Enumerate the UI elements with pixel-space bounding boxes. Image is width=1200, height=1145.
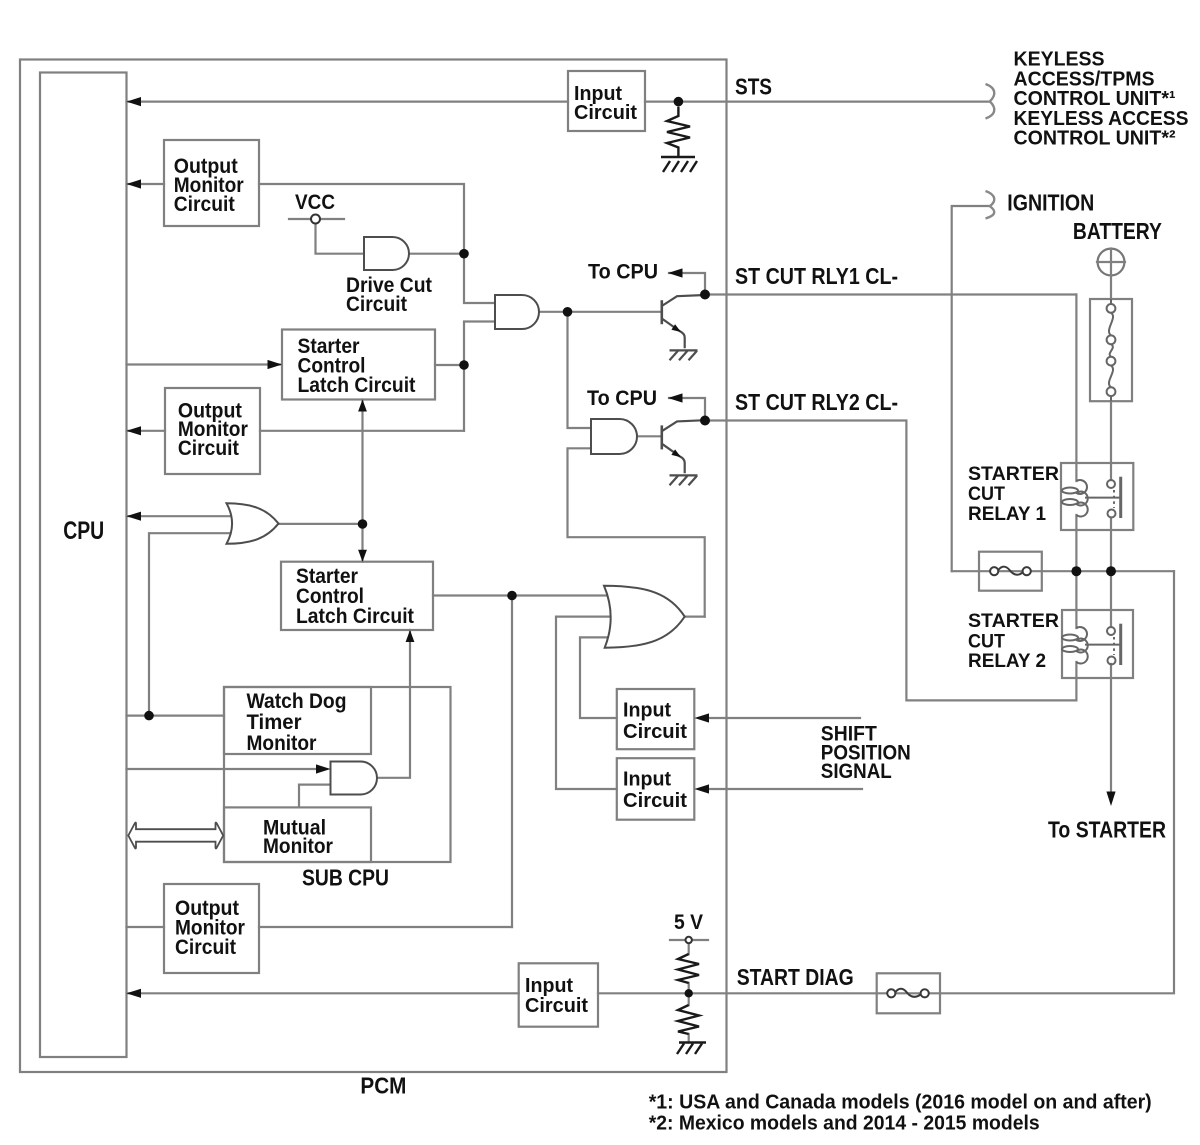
svg-text:CONTROL UNIT*¹: CONTROL UNIT*¹ [1014, 88, 1176, 110]
svg-text:Circuit: Circuit [525, 995, 588, 1017]
svg-text:Circuit: Circuit [574, 102, 637, 124]
svg-text:SUB CPU: SUB CPU [302, 865, 389, 891]
svg-text:Latch Circuit: Latch Circuit [298, 374, 416, 397]
svg-text:RELAY 2: RELAY 2 [968, 651, 1046, 672]
svg-text:CUT: CUT [968, 632, 1005, 653]
svg-text:STS: STS [735, 74, 772, 100]
svg-text:RELAY 1: RELAY 1 [968, 504, 1046, 525]
svg-text:KEYLESS: KEYLESS [1014, 49, 1105, 71]
svg-text:VCC: VCC [295, 191, 335, 214]
svg-text:ACCESS/TPMS: ACCESS/TPMS [1014, 68, 1155, 90]
svg-text:Circuit: Circuit [346, 293, 407, 316]
svg-text:START DIAG: START DIAG [737, 964, 854, 990]
svg-text:KEYLESS ACCESS: KEYLESS ACCESS [1014, 108, 1189, 130]
svg-text:CUT: CUT [968, 484, 1005, 505]
svg-text:Circuit: Circuit [623, 721, 687, 743]
svg-text:Timer: Timer [247, 711, 302, 734]
svg-text:ST CUT RLY2 CL-: ST CUT RLY2 CL- [735, 389, 898, 415]
svg-text:Circuit: Circuit [175, 936, 236, 959]
svg-text:Circuit: Circuit [178, 437, 239, 460]
svg-text:Circuit: Circuit [623, 790, 687, 812]
svg-text:STARTER: STARTER [968, 611, 1059, 632]
svg-text:ST CUT RLY1 CL-: ST CUT RLY1 CL- [735, 263, 898, 289]
svg-text:Input: Input [525, 975, 573, 997]
svg-text:*1: USA and Canada models (201: *1: USA and Canada models (2016 model on… [649, 1091, 1152, 1113]
svg-text:CPU: CPU [63, 517, 104, 545]
svg-text:PCM: PCM [360, 1073, 406, 1099]
svg-text:Monitor: Monitor [247, 732, 317, 755]
svg-text:CONTROL UNIT*²: CONTROL UNIT*² [1014, 128, 1176, 150]
svg-text:IGNITION: IGNITION [1007, 190, 1094, 216]
svg-text:SIGNAL: SIGNAL [821, 760, 892, 783]
svg-text:Circuit: Circuit [174, 193, 235, 216]
svg-text:STARTER: STARTER [968, 464, 1059, 485]
svg-text:BATTERY: BATTERY [1073, 218, 1162, 244]
svg-text:Watch Dog: Watch Dog [247, 690, 347, 713]
svg-text:To CPU: To CPU [588, 261, 658, 284]
svg-text:*2: Mexico models and 2014 - 2: *2: Mexico models and 2014 - 2015 models [649, 1112, 1040, 1134]
svg-text:Monitor: Monitor [263, 835, 333, 858]
svg-text:Input: Input [623, 700, 671, 722]
svg-text:Latch Circuit: Latch Circuit [296, 605, 414, 628]
svg-text:To STARTER: To STARTER [1048, 817, 1166, 843]
svg-text:To CPU: To CPU [587, 387, 657, 410]
svg-text:Input: Input [623, 769, 671, 791]
svg-text:5 V: 5 V [674, 911, 703, 934]
